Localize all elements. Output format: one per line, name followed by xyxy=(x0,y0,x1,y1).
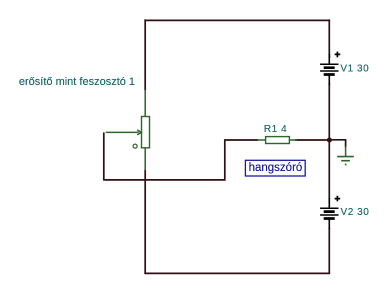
potentiometer body xyxy=(142,117,150,148)
ground bar 2 xyxy=(341,160,350,162)
wire mid horizontal xyxy=(103,179,225,181)
svg-text:erősítő mint feszosztó 1: erősítő mint feszosztó 1 xyxy=(19,76,135,88)
potentiometer wiper circle mark xyxy=(133,144,137,148)
node label box "hangszóró" xyxy=(245,160,305,176)
battery V2 top pin xyxy=(328,198,330,209)
svg-text:V1 30: V1 30 xyxy=(340,63,369,74)
wire right vertical lower xyxy=(328,228,330,274)
battery V1 thick plates xyxy=(324,68,335,75)
battery V2 thin plates xyxy=(320,208,338,215)
wire right vertical upper xyxy=(328,19,330,58)
wire bottom horizontal xyxy=(144,272,330,274)
battery V1 bottom pin xyxy=(328,75,330,86)
battery V1 top pin xyxy=(328,54,330,65)
resistor R1 right pin xyxy=(289,139,297,141)
wire R1 to junction xyxy=(295,139,330,141)
battery V2 plus sign xyxy=(335,196,341,202)
ground stem xyxy=(345,146,347,157)
svg-text:V2 30: V2 30 xyxy=(341,207,370,218)
battery V1 thin plates xyxy=(320,64,338,71)
potentiometer top pin xyxy=(144,90,146,117)
svg-text:R1 4: R1 4 xyxy=(264,124,287,135)
wire left vertical upper xyxy=(144,19,146,90)
svg-text:hangszóró: hangszóró xyxy=(249,162,303,174)
resistor R1 left pin xyxy=(257,139,266,141)
resistor R1 body xyxy=(266,137,290,144)
potentiometer bottom pin xyxy=(144,148,146,171)
battery V1 plus sign xyxy=(335,52,341,58)
wire right vertical middle xyxy=(328,83,330,199)
junction node dot xyxy=(327,138,332,143)
ground bar 1 xyxy=(337,156,354,158)
wire step horizontal to R1 xyxy=(224,139,258,141)
wire wiper vertical xyxy=(103,132,105,180)
battery V2 bottom pin xyxy=(328,219,330,230)
wire junction to ground xyxy=(329,140,346,147)
potentiometer wiper arrow xyxy=(106,130,142,135)
wire top horizontal xyxy=(144,19,330,21)
wire left vertical lower xyxy=(144,170,146,274)
battery V2 thick plates xyxy=(324,212,335,219)
wire step vertical xyxy=(224,140,226,181)
ground bar 3 xyxy=(345,164,347,166)
